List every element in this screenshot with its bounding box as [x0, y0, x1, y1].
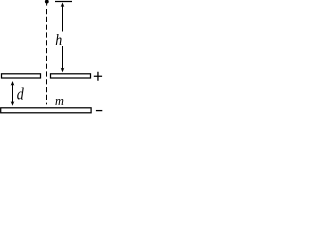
top plate right section — [51, 74, 91, 78]
top plate left section — [2, 74, 41, 78]
h arrow lower segment with down arrowhead — [61, 46, 65, 72]
svg-text:d: d — [17, 85, 24, 104]
svg-text:m: m — [55, 94, 64, 108]
trajectory dashed line — [46, 9, 48, 104]
top reference bar — [55, 1, 72, 3]
minus sign (bottom plate polarity) — [96, 110, 102, 112]
svg-text:h: h — [55, 32, 62, 49]
particle (ball at start point) — [45, 0, 49, 4]
plus sign (top plate polarity) — [94, 72, 102, 81]
h arrow upper segment with up arrowhead — [61, 2, 65, 31]
bottom plate — [1, 108, 91, 113]
d arrow (double headed between plates) — [11, 81, 15, 106]
trajectory line stem below particle — [46, 2, 48, 6]
